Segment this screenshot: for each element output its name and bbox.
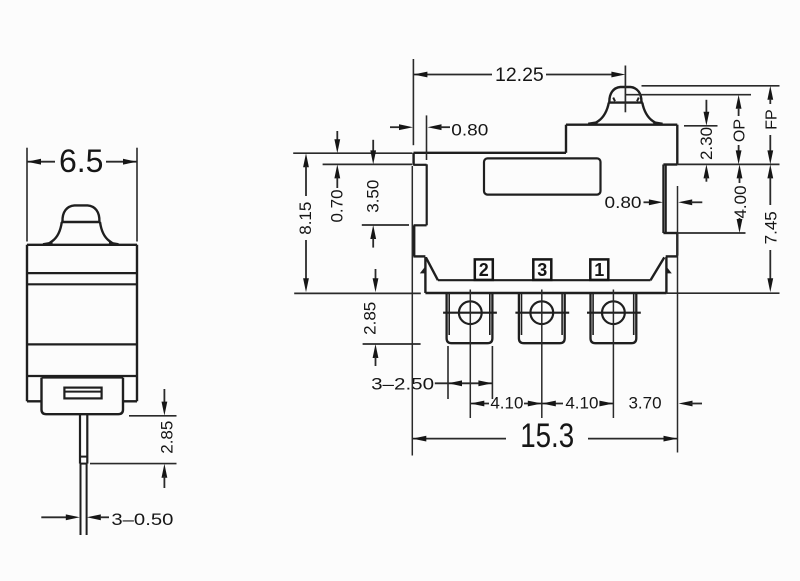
svg-text:12.25: 12.25: [495, 64, 544, 86]
inner rung extension line left: [362, 224, 409, 226]
pin number box 1: [590, 259, 608, 280]
svg-text:15.3: 15.3: [520, 417, 574, 455]
terminal tab 2: [515, 293, 569, 343]
dimension 2.30: [697, 100, 716, 182]
dimension 4.10 first: [470, 393, 542, 412]
notch top extension line: [677, 163, 779, 165]
dimension 3.70: [628, 393, 702, 412]
dimension 6.5 (left view width): [27, 143, 137, 242]
left view body: [27, 245, 137, 401]
dimension FP: [764, 86, 781, 165]
svg-text:0.70: 0.70: [328, 189, 347, 222]
bottom rim extension line right: [666, 292, 779, 294]
terminal tab 1: [443, 293, 497, 343]
dimension 2.85 (left view pin length): [90, 389, 177, 488]
svg-text:2.30: 2.30: [697, 127, 716, 160]
dimension 0.80 right notch: [605, 193, 703, 212]
dimension 2.85 right view: [361, 269, 380, 366]
dimension 7.45: [761, 164, 780, 292]
dimension 3-0.50 (pin thickness): [41, 510, 173, 529]
dimension 3.50: [363, 140, 382, 248]
svg-text:8.15: 8.15: [296, 202, 315, 235]
svg-text:0.80: 0.80: [605, 193, 642, 212]
svg-text:6.5: 6.5: [59, 143, 103, 179]
svg-text:FP: FP: [764, 109, 781, 129]
notch bottom extension line: [677, 232, 745, 234]
label recess rectangle: [484, 158, 601, 194]
body top extension line left: [293, 152, 412, 154]
svg-text:4.10: 4.10: [565, 393, 598, 412]
left view plunger button: [43, 205, 119, 244]
button centerline: [624, 66, 626, 113]
dimension 4.00: [731, 164, 750, 233]
svg-text:7.45: 7.45: [761, 211, 780, 244]
svg-text:3: 3: [537, 260, 547, 280]
free position reference line: [642, 85, 780, 87]
svg-text:4.00: 4.00: [731, 185, 750, 218]
svg-text:2: 2: [479, 260, 489, 280]
right view bottom rim: [420, 257, 672, 293]
left view bottom block: [42, 378, 124, 415]
terminal 2 centerline: [469, 290, 471, 419]
right view body outline: [413, 125, 677, 281]
svg-text:2.85: 2.85: [361, 302, 380, 335]
dimension 0.70: [328, 131, 347, 223]
left view terminal pin: [80, 414, 87, 535]
dimension 8.15: [296, 153, 315, 292]
operating position reference line: [625, 94, 751, 96]
svg-text:1: 1: [594, 260, 604, 280]
pin number box 2: [475, 259, 493, 280]
svg-text:3–2.50: 3–2.50: [371, 375, 434, 394]
body top extension line right: [684, 125, 718, 127]
top-left notch extension line: [323, 163, 412, 165]
left view slot window: [64, 388, 101, 399]
svg-text:OP: OP: [731, 119, 748, 142]
right view plunger button: [588, 87, 662, 124]
dimension 15.3: [412, 166, 677, 456]
dimension 12.25: [413, 59, 625, 145]
svg-text:3–0.50: 3–0.50: [111, 510, 173, 529]
pin number box 3: [533, 259, 551, 280]
terminal 3 centerline: [541, 290, 543, 419]
tab bottom extension line left: [363, 343, 421, 345]
bottom rim extension line left: [294, 292, 421, 294]
svg-text:0.80: 0.80: [451, 120, 488, 139]
dimension 0.80 top-left: [390, 115, 488, 160]
dimension 3-2.50: [371, 346, 492, 399]
dimension OP: [731, 95, 748, 165]
svg-text:3.70: 3.70: [628, 393, 661, 412]
svg-text:2.85: 2.85: [158, 421, 177, 454]
svg-text:4.10: 4.10: [490, 393, 523, 412]
terminal tab 3: [587, 293, 641, 343]
dimension 4.10 second: [542, 393, 614, 412]
svg-text:3.50: 3.50: [363, 180, 382, 213]
terminal 1 centerline: [612, 290, 614, 419]
